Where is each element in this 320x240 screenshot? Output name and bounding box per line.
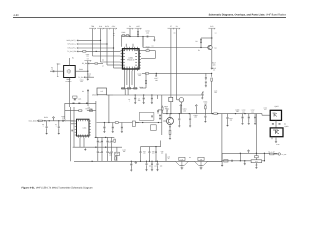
wire <box>170 29 172 98</box>
svg-text:360: 360 <box>109 155 112 157</box>
svg-text:4-80: 4-80 <box>13 14 19 17</box>
capacitor C254 <box>46 126 48 129</box>
component D251 <box>132 121 135 126</box>
ground <box>145 169 147 171</box>
node <box>211 73 212 74</box>
node <box>264 153 265 154</box>
node <box>58 120 59 121</box>
node <box>135 94 136 95</box>
wire <box>77 50 83 52</box>
wire <box>200 43 202 48</box>
wire <box>121 87 138 89</box>
wire <box>242 114 244 117</box>
wire <box>165 154 167 162</box>
svg-text:C205: C205 <box>78 98 82 100</box>
wire <box>176 29 178 100</box>
wire <box>121 129 123 131</box>
wire <box>114 67 121 69</box>
svg-text:C217: C217 <box>154 77 158 80</box>
wire <box>101 137 103 140</box>
wire <box>97 153 99 161</box>
wire <box>151 161 153 163</box>
wire <box>140 153 142 162</box>
svg-text:Q402: Q402 <box>274 105 278 108</box>
wire <box>95 136 115 138</box>
svg-text:C404: C404 <box>194 114 198 117</box>
crystal symbol <box>67 70 71 74</box>
wire <box>161 110 163 114</box>
wire <box>255 163 257 167</box>
node <box>95 137 96 138</box>
wire <box>77 39 101 41</box>
svg-text:R201: R201 <box>122 31 126 34</box>
wire <box>157 161 159 163</box>
wire <box>151 95 153 98</box>
wire <box>154 51 156 59</box>
wire <box>169 134 171 137</box>
capacitor C420 <box>130 163 132 166</box>
svg-text:E1: E1 <box>198 49 200 52</box>
capacitor pair <box>159 114 161 117</box>
svg-text:R9: R9 <box>174 33 176 35</box>
wire <box>125 44 127 47</box>
wire <box>131 71 133 85</box>
svg-text:B4_1_TP: B4_1_TP <box>268 150 274 153</box>
wire <box>137 29 139 32</box>
node <box>44 120 45 121</box>
wire <box>107 147 109 151</box>
wire <box>130 161 132 163</box>
svg-text:360: 360 <box>149 165 152 167</box>
svg-text:VCP: VCP <box>136 25 140 28</box>
svg-text:C204: C204 <box>80 79 84 82</box>
svg-text:16.8MHz: 16.8MHz <box>65 80 71 83</box>
svg-text:C211: C211 <box>138 72 142 75</box>
component box <box>151 125 157 131</box>
svg-text:TX_EN: TX_EN <box>78 76 84 79</box>
svg-text:.01: .01 <box>116 155 118 157</box>
wire upper RF line <box>222 152 277 154</box>
wire <box>153 37 155 39</box>
wire <box>186 160 194 162</box>
wire <box>73 146 122 148</box>
U251 bottom pins <box>78 136 88 138</box>
ground <box>211 67 213 69</box>
ground <box>226 124 228 126</box>
wire <box>79 138 81 147</box>
wire <box>113 94 204 96</box>
svg-text:220: 220 <box>154 165 157 167</box>
svg-text:C4: C4 <box>102 66 104 68</box>
wire <box>68 58 70 66</box>
capacitor C405 <box>204 115 206 118</box>
wire <box>64 103 66 119</box>
wire <box>148 147 150 152</box>
capacitor C264 <box>103 126 105 129</box>
ground <box>169 137 171 139</box>
wire <box>205 79 207 81</box>
wire <box>180 102 182 114</box>
resistor R220 <box>83 51 86 53</box>
wire <box>271 137 273 140</box>
svg-text:FRAC-N: FRAC-N <box>127 58 135 61</box>
svg-text:TX_RF: TX_RF <box>282 153 287 156</box>
varactor loop <box>139 112 154 120</box>
svg-text:MOD_OUT_2: MOD_OUT_2 <box>67 39 77 42</box>
wire <box>87 71 89 78</box>
resistor R202 <box>126 35 129 36</box>
IC U251 VCO body <box>77 119 90 136</box>
capacitor C412 <box>254 116 256 119</box>
page header rule <box>13 17 286 19</box>
svg-text:Q1: Q1 <box>214 46 216 49</box>
ground <box>134 102 136 104</box>
wire <box>177 99 179 101</box>
ground <box>153 39 155 41</box>
filter FL401 <box>251 160 262 163</box>
svg-text:C7: C7 <box>55 123 57 126</box>
capacitor C220 <box>201 93 203 96</box>
capacitor C260 <box>97 151 99 154</box>
ground <box>189 125 191 127</box>
capacitor C424 <box>231 160 234 162</box>
wire <box>169 114 171 118</box>
svg-text:Schematic Diagrams, Overlays,: Schematic Diagrams, Overlays, and Parts … <box>209 13 287 16</box>
wire <box>134 71 136 88</box>
wire <box>134 100 136 102</box>
wire <box>201 37 212 39</box>
wire <box>137 35 139 37</box>
wire <box>155 147 157 152</box>
wire <box>87 61 89 71</box>
capacitor C250 <box>73 102 75 105</box>
wire <box>124 89 126 95</box>
node <box>137 36 138 37</box>
resistor R403 <box>205 106 207 109</box>
wire <box>275 137 277 141</box>
wire <box>86 50 121 52</box>
wire <box>71 123 75 125</box>
wire <box>113 29 115 48</box>
node <box>256 153 257 154</box>
wire <box>157 109 159 112</box>
ground <box>205 85 207 87</box>
wire <box>204 118 206 121</box>
svg-text:R224: R224 <box>139 86 143 89</box>
wire <box>107 143 109 148</box>
svg-text:R406: R406 <box>164 105 168 108</box>
svg-text:5V: 5V <box>88 106 91 109</box>
ground <box>255 166 257 168</box>
ground <box>201 97 203 99</box>
node <box>240 153 241 154</box>
power flag 9V3 <box>247 149 249 152</box>
wire <box>129 29 131 37</box>
wire <box>103 123 105 127</box>
wire <box>129 71 131 88</box>
capacitor C259 <box>111 140 113 143</box>
wire <box>101 153 103 161</box>
U251 left pins <box>75 121 77 135</box>
node <box>151 94 152 95</box>
wire <box>129 34 130 36</box>
svg-text:9V3: 9V3 <box>210 25 213 28</box>
svg-text:C408: C408 <box>235 108 239 111</box>
IC U201 FRAC-N synthesizer QFP body <box>123 49 140 69</box>
svg-text:100: 100 <box>161 153 164 155</box>
wire <box>111 143 113 148</box>
wire <box>242 119 244 123</box>
svg-text:SYN_CLK_2: SYN_CLK_2 <box>67 43 76 46</box>
wire <box>95 101 97 137</box>
svg-text:Y201: Y201 <box>57 62 61 65</box>
wire <box>142 37 144 47</box>
wire <box>149 72 212 74</box>
ground <box>46 132 48 134</box>
wire <box>221 114 223 162</box>
ground <box>84 148 86 150</box>
ground <box>178 125 180 127</box>
wire <box>97 122 162 124</box>
ground <box>156 169 158 171</box>
wire <box>170 102 172 114</box>
wire <box>141 50 146 52</box>
wire <box>101 147 103 151</box>
svg-text:R1: R1 <box>72 56 74 59</box>
node <box>87 71 88 72</box>
wire <box>200 38 202 40</box>
U201 left pins <box>121 51 123 68</box>
wire <box>106 29 108 44</box>
wire <box>50 70 64 72</box>
ground <box>244 163 246 165</box>
svg-text:VCO_MOD: VCO_MOD <box>29 120 38 123</box>
U201 bottom pins <box>124 69 137 71</box>
wire <box>97 147 99 151</box>
wire <box>107 153 109 161</box>
svg-text:TRB: TRB <box>91 25 95 28</box>
wire <box>146 161 148 163</box>
node <box>142 36 143 37</box>
svg-text:R202: R202 <box>79 68 83 71</box>
resistor R216 <box>211 78 213 81</box>
connector J401 <box>278 153 280 155</box>
wire <box>211 81 213 113</box>
svg-text:R2: R2 <box>195 40 197 43</box>
wire <box>227 119 229 124</box>
filter section FL401 <box>179 157 185 160</box>
resistor R257 <box>162 107 164 110</box>
svg-text:Figure 4-61. VHF (136-174 MHz: Figure 4-61. VHF (136-174 MHz) Transmitt… <box>22 187 93 190</box>
wire <box>65 102 96 104</box>
wire <box>143 100 145 102</box>
filter section FL402 <box>198 157 204 160</box>
svg-text:C85: C85 <box>99 152 102 154</box>
ground <box>204 120 206 122</box>
wire <box>77 47 114 49</box>
capacitor C253 <box>62 120 65 122</box>
inductor L251 <box>38 120 42 121</box>
ground <box>87 78 89 80</box>
wire <box>163 113 262 115</box>
node <box>91 161 92 162</box>
ground <box>58 132 60 134</box>
resistor R210 <box>146 50 149 52</box>
wire <box>248 114 250 117</box>
svg-text:SYN_DAT_2: SYN_DAT_2 <box>67 47 76 50</box>
wire <box>83 138 85 147</box>
bracket <box>57 64 58 78</box>
wire <box>159 160 175 162</box>
ground <box>221 164 223 166</box>
svg-text:100: 100 <box>214 92 217 94</box>
wire <box>132 44 134 47</box>
wire <box>113 48 115 68</box>
wire <box>160 141 162 147</box>
ground <box>151 169 153 171</box>
ground <box>103 130 105 132</box>
capacitor C205 <box>74 98 76 101</box>
wire <box>189 120 191 124</box>
svg-text:DATA: DATA <box>105 25 110 28</box>
svg-text:C83: C83 <box>108 141 111 143</box>
wire <box>261 114 263 116</box>
wire <box>178 114 180 119</box>
wire <box>204 114 206 116</box>
svg-text:3V: 3V <box>176 25 179 28</box>
capacitor C226 <box>143 97 145 100</box>
wire <box>116 147 118 152</box>
capacitor C262 <box>107 151 109 154</box>
wire <box>71 120 75 122</box>
node <box>166 113 167 114</box>
capacitor C257 <box>101 140 103 143</box>
wire <box>108 95 110 123</box>
wire <box>111 153 113 161</box>
wire <box>42 120 74 122</box>
U251 right pins <box>89 121 91 135</box>
wire <box>205 83 207 84</box>
wire <box>161 95 163 135</box>
wire <box>211 29 213 46</box>
resistor R254 <box>114 139 116 142</box>
transistor Q201 <box>208 45 212 49</box>
U201 right pins <box>139 51 141 68</box>
wire <box>274 153 278 155</box>
wire <box>58 128 60 132</box>
capacitor C402 <box>178 118 180 121</box>
wire <box>255 153 257 155</box>
wire <box>135 161 137 162</box>
node <box>211 37 212 38</box>
ground <box>241 122 243 124</box>
svg-text:5R_BW: 5R_BW <box>82 62 88 65</box>
wire <box>93 55 121 57</box>
resistor R230 <box>169 97 173 101</box>
resistor R255 <box>115 152 120 155</box>
capacitor C256 <box>97 140 99 143</box>
power flag <box>135 161 137 164</box>
inductor L421 <box>224 160 228 162</box>
resistor R402 <box>169 130 171 134</box>
svg-text:R9: R9 <box>102 60 104 62</box>
svg-text:5V: 5V <box>129 25 132 28</box>
svg-text:C6: C6 <box>42 123 44 126</box>
IC U202 modulation amp <box>97 88 107 95</box>
wire <box>248 152 250 153</box>
resistor R221 <box>122 88 125 90</box>
wire <box>101 61 121 63</box>
capacitor C410 <box>242 116 244 119</box>
wire <box>148 153 150 162</box>
wire <box>125 34 126 36</box>
wire <box>206 160 222 162</box>
ground <box>248 122 250 124</box>
wire <box>161 106 163 108</box>
node <box>129 36 130 37</box>
wire <box>248 119 250 123</box>
wire <box>205 73 207 77</box>
wire <box>67 78 71 80</box>
wire <box>87 92 89 95</box>
node <box>155 146 156 147</box>
svg-text:C81: C81 <box>99 141 102 143</box>
svg-text:U2: U2 <box>101 90 103 93</box>
capacitor C403 <box>189 118 191 121</box>
wire <box>107 137 109 140</box>
wire <box>244 161 246 163</box>
resistor R250 <box>79 110 82 112</box>
wire <box>100 29 102 41</box>
wire <box>201 95 203 97</box>
svg-text:10: 10 <box>113 35 115 37</box>
node <box>200 47 201 48</box>
wire <box>275 120 277 128</box>
wire <box>201 92 203 93</box>
capacitor C263 <box>111 151 113 154</box>
wire <box>111 147 113 151</box>
wire <box>157 95 159 99</box>
capacitor C280 <box>71 130 74 132</box>
capacitor C227 <box>151 97 153 100</box>
ground <box>130 169 132 171</box>
wire <box>143 95 145 98</box>
capacitor C422 <box>151 163 153 166</box>
wire <box>157 165 159 168</box>
capacitor C218 <box>205 76 207 79</box>
wire <box>189 114 191 119</box>
U201 top pins <box>124 47 137 49</box>
wire <box>141 57 155 59</box>
wire <box>75 70 88 72</box>
wire <box>87 95 89 106</box>
svg-text:100: 100 <box>152 153 155 155</box>
wire <box>121 34 124 36</box>
wire <box>46 121 48 127</box>
wire <box>68 78 70 108</box>
coupler C426 <box>255 156 259 158</box>
power flag <box>180 104 182 107</box>
shield wire <box>70 107 72 161</box>
node <box>143 94 144 95</box>
node <box>244 160 245 161</box>
U251 inner pin marks <box>78 120 87 136</box>
wire <box>126 71 128 85</box>
wire <box>221 161 223 164</box>
capacitor C255 <box>58 126 60 129</box>
RF line <box>74 160 222 162</box>
wire <box>106 44 108 65</box>
